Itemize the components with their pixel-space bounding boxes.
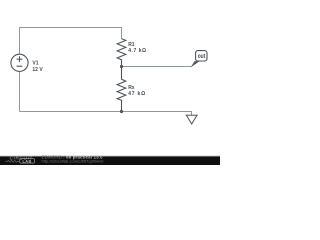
svg-text:http://circuitlab.com/c/6tt7q3: http://circuitlab.com/c/6tt7q3hkkvb — [42, 159, 104, 164]
svg-text:12 V: 12 V — [32, 67, 43, 73]
voltage source V1 — [11, 54, 28, 71]
svg-text:out: out — [198, 54, 206, 60]
wire left bottom from V1 to bottom rail — [19, 72, 21, 112]
svg-text:R1: R1 — [128, 42, 135, 48]
wire top from V1 to R1 — [20, 28, 122, 55]
svg-text:LAB: LAB — [22, 158, 31, 163]
footer bar — [0, 155, 220, 156]
logo resistor squiggle — [6, 160, 20, 162]
out flag pointer — [191, 61, 200, 67]
out flag box — [196, 51, 207, 61]
logo LAB box — [20, 159, 35, 163]
ground — [186, 115, 198, 124]
svg-text:V1: V1 — [32, 61, 38, 67]
node junction dot at out — [120, 65, 123, 68]
svg-text:4.7 kΩ: 4.7 kΩ — [128, 48, 146, 54]
node junction dot bottom — [120, 110, 123, 113]
wire bottom rail — [20, 112, 192, 116]
svg-text:47 kΩ: 47 kΩ — [128, 91, 146, 97]
wire node out horizontal — [122, 66, 192, 68]
resistor R1 — [117, 39, 126, 67]
resistor Rx — [117, 67, 126, 112]
